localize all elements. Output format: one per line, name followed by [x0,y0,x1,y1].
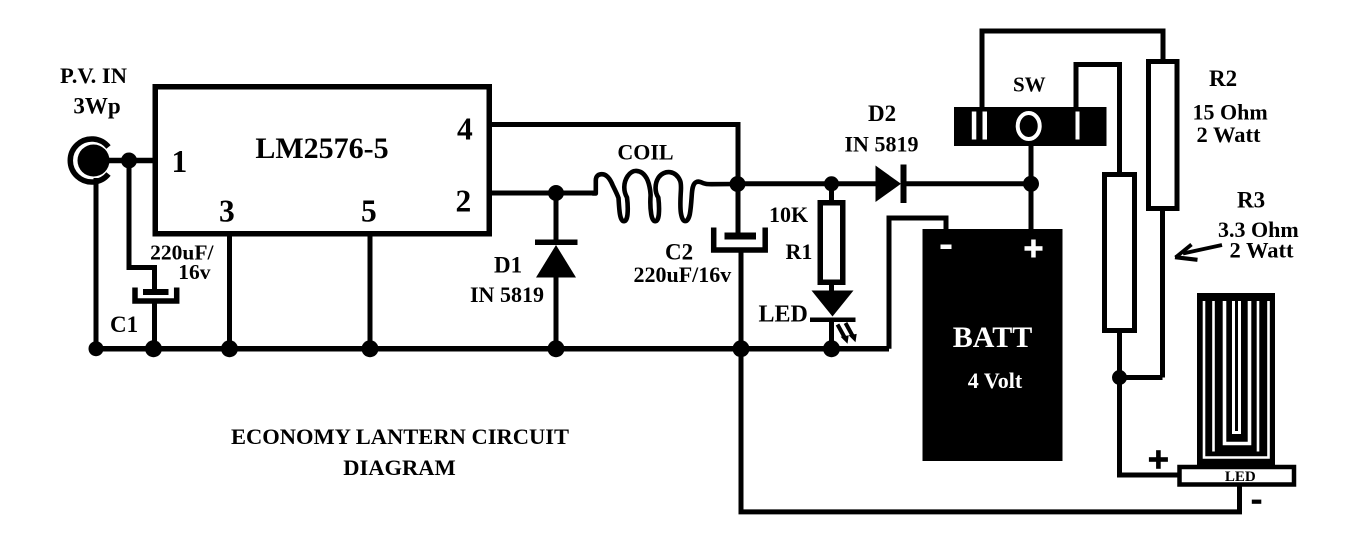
svg-text:220uF/16v: 220uF/16v [634,262,732,287]
svg-text:4 Volt: 4 Volt [968,368,1023,393]
svg-text:R3: R3 [1237,188,1265,213]
label lamp minus [1252,500,1262,504]
wire: output node right to D2 [737,181,878,186]
ground bus wire [94,346,890,352]
wire: ground bus to bottom rail to lamp minus [741,349,1240,512]
svg-text:LM2576-5: LM2576-5 [255,132,388,165]
svg-text:D2: D2 [868,101,896,126]
svg-text:5: 5 [361,194,377,229]
wire: R3 bottom to lamp plus terminal [1120,330,1181,475]
wire: C1 to ground bus [152,303,157,349]
svg-text:R2: R2 [1209,66,1237,91]
wire: R2 bottom down [1160,208,1165,378]
svg-text:C1: C1 [110,312,138,337]
wire: pin 4 to output node [490,125,738,187]
wire: pin 2 to coil [490,191,595,196]
diode D1 [535,193,578,349]
resistor R1 [820,184,843,282]
battery BATT [923,229,1063,461]
wire: SW left terminal to R2 top [982,31,1163,108]
IC U1 LM2576-5 [155,87,489,234]
resistor R3 [1105,175,1135,331]
connector J1 (P.V. IN jack) [70,139,109,182]
wire: pin 5 to ground bus [368,233,373,349]
svg-text:R1: R1 [786,239,813,264]
junction dots on ground bus [89,341,104,356]
wire: jack to pin 1 [96,158,155,164]
wire: jack down to ground bus [94,178,99,349]
svg-text:10K: 10K [769,202,808,227]
LED lamp panel [1197,293,1275,466]
svg-text:SW: SW [1013,73,1046,97]
inductor COIL [593,171,737,221]
svg-text:IN 5819: IN 5819 [470,282,544,307]
svg-text:4: 4 [457,112,473,147]
svg-text:2: 2 [456,184,472,219]
svg-text:D1: D1 [494,253,522,278]
capacitor C1 [135,288,177,302]
wire: R2/R3 link [1120,375,1163,380]
svg-text:2 Watt: 2 Watt [1197,122,1261,147]
svg-text:1: 1 [172,144,188,179]
junction: pin1 / C1 node [121,153,137,169]
label lamp plus [1149,457,1168,462]
junction: R1 top node [824,176,839,191]
svg-text:16v: 16v [178,260,211,284]
svg-text:C2: C2 [665,240,693,265]
junction: D1 node [548,185,564,201]
wire: SW right terminal to R3 top [1076,65,1120,174]
LED lamp terminal box [1180,467,1295,485]
svg-text:15 Ohm: 15 Ohm [1193,100,1268,125]
svg-text:3Wp: 3Wp [73,94,120,119]
svg-text:IN 5819: IN 5819 [845,132,919,157]
wire: ground bus to battery minus [889,218,946,349]
wire: pin 3 to ground bus [227,233,232,349]
junction: coil/C2/pin4 output node [730,176,746,192]
LED indicator [810,282,857,349]
wire: SW common to node and battery plus [1029,145,1034,231]
svg-text:DIAGRAM: DIAGRAM [343,455,456,480]
svg-text:COIL: COIL [617,140,673,165]
wire: output node down to C2 [736,184,741,235]
svg-text:ECONOMY LANTERN CIRCUIT: ECONOMY LANTERN CIRCUIT [231,424,569,449]
capacitor C2 [714,228,766,251]
svg-text:BATT: BATT [953,321,1032,354]
junction: battery plus node [1023,176,1039,192]
wire: C2 to ground bus [739,251,744,349]
svg-text:P.V. IN: P.V. IN [60,63,127,88]
switch SW [954,107,1107,146]
junction: R2/R3 node [1112,370,1127,385]
wire: node to capacitor C1 [129,161,155,291]
svg-text:LED: LED [759,302,808,328]
diode D2 [876,165,1032,204]
svg-text:2 Watt: 2 Watt [1230,238,1294,263]
annotation arrow pointing at R3 resistor [1175,245,1222,260]
resistor R2 [1149,62,1178,209]
svg-text:3: 3 [219,194,235,229]
svg-text:LED: LED [1225,469,1256,485]
